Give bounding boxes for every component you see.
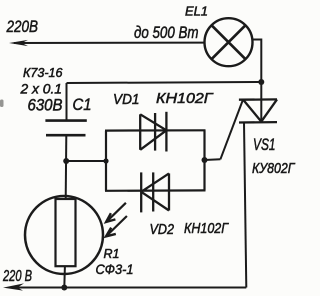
label VS1 <box>253 136 276 154</box>
wire lamp to right corner and down to VS1 anode <box>253 40 262 122</box>
label do 500 Vt <box>134 23 199 42</box>
wire input to dinistor loop <box>66 160 106 162</box>
lamp EL1 <box>205 18 253 66</box>
label VD1 <box>113 91 140 108</box>
node L1 label 220V top <box>6 17 38 36</box>
junction at anode vertical <box>258 79 264 85</box>
dinistor VD1 <box>140 112 166 152</box>
label 220 V bottom <box>2 268 32 285</box>
capacitor C1 <box>45 83 86 199</box>
svg-text:220 В: 220 В <box>2 268 32 285</box>
svg-text:EL1: EL1 <box>185 3 208 18</box>
svg-text:СФ3-1: СФ3-1 <box>96 261 134 277</box>
node junction C1-bottom <box>63 158 69 164</box>
wire gate diagonal to VS1 <box>220 100 243 160</box>
wire horizontal C1-top to anode vertical <box>67 82 262 83</box>
svg-text:R1: R1 <box>104 246 120 261</box>
wire dinistor loop frame <box>105 130 206 191</box>
light arrow upper <box>106 203 126 222</box>
label C1 <box>73 95 92 114</box>
label 630V <box>28 96 63 115</box>
svg-text:220В: 220В <box>6 17 38 36</box>
label R1 <box>104 246 120 261</box>
svg-text:VD1: VD1 <box>113 91 140 108</box>
wire top 220V line with arrow <box>9 40 204 46</box>
svg-text:К73-16: К73-16 <box>23 65 63 80</box>
label KN102G bottom <box>184 220 230 237</box>
node junction loop left <box>103 158 108 163</box>
label K73-16 <box>23 65 63 80</box>
wire gate stub <box>205 158 221 161</box>
svg-text:C1: C1 <box>73 95 92 114</box>
wire VS1 cathode down <box>244 122 246 287</box>
svg-text:VD2: VD2 <box>150 221 175 238</box>
photoresistor R1 <box>25 196 103 288</box>
thyristor VS1 <box>239 99 277 122</box>
label SF3-1 <box>96 261 134 277</box>
light arrow lower <box>106 216 127 236</box>
svg-text:КУ802Г: КУ802Г <box>252 160 296 177</box>
label KU802G <box>252 160 296 177</box>
svg-text:630В: 630В <box>28 96 63 115</box>
wire bottom 220V line with arrow <box>3 283 246 290</box>
svg-text:до 500 Вт: до 500 Вт <box>134 23 199 42</box>
svg-text:КН102Г: КН102Г <box>184 220 230 237</box>
svg-text:VS1: VS1 <box>253 136 276 154</box>
label EL1 <box>185 3 208 18</box>
node junction R1 bottom <box>61 285 67 291</box>
label KN102G top <box>156 90 214 107</box>
dinistor VD2 <box>141 172 169 212</box>
node junction loop right (gate takeoff) <box>202 157 208 163</box>
label VD2 <box>150 221 175 238</box>
scan smudge left edge <box>0 100 4 108</box>
svg-text:КН102Г: КН102Г <box>156 90 214 107</box>
svg-text:2 x 0.1: 2 x 0.1 <box>20 81 62 97</box>
label 2 x 0.1 <box>20 81 62 97</box>
